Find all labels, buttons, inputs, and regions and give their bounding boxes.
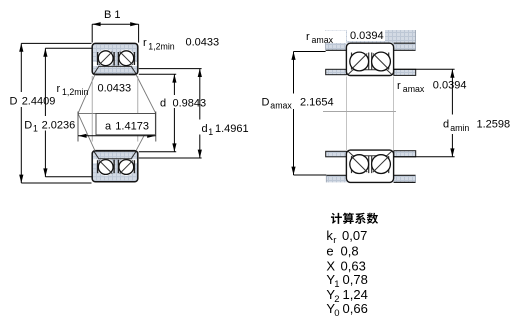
- dimension a tick left: [77, 112, 79, 142]
- bore edge extension right: [393, 77, 395, 151]
- half outline: [92, 43, 138, 74]
- ball1 contact diagonal: [99, 52, 112, 65]
- svg-text:d: d: [443, 119, 449, 131]
- svg-text:r: r: [57, 83, 61, 95]
- svg-text:0.0394: 0.0394: [433, 80, 467, 92]
- table title: [331, 213, 378, 224]
- dimension damin line: [451, 69, 453, 114]
- shaft shoulder top-right: [394, 69, 416, 75]
- ball row2: [119, 51, 134, 66]
- bottom shoulder edge right: [394, 174, 416, 176]
- bearing body white: [346, 43, 393, 75]
- ball row2: [372, 52, 391, 71]
- right face extension: [137, 76, 139, 142]
- dimension D1 line: [44, 48, 46, 116]
- housing left edge: [325, 30, 327, 50]
- svg-text:amax: amax: [403, 84, 425, 94]
- cage bar mid-right: [371, 53, 373, 71]
- svg-text:0.0433: 0.0433: [98, 82, 132, 94]
- svg-text:1.4961: 1.4961: [215, 123, 249, 135]
- contact cone edge lower-right: [136, 113, 156, 150]
- ball row1: [350, 52, 369, 71]
- svg-text:r: r: [306, 31, 310, 43]
- dimension d1 line: [199, 69, 201, 120]
- cage bar left: [351, 53, 353, 70]
- label r amax 0.0394 (top): [300, 31, 346, 44]
- ball2 diagonal: [373, 54, 389, 70]
- svg-text:1,2min: 1,2min: [62, 87, 89, 97]
- shaft shoulder bottom-left: [326, 151, 347, 157]
- cage bar mid-right: [117, 52, 119, 66]
- svg-text:r: r: [143, 37, 147, 49]
- svg-text:B 1: B 1: [104, 9, 121, 21]
- svg-text:0,78: 0,78: [343, 272, 368, 287]
- dimension D extension top: [21, 42, 91, 44]
- housing bottom block: [326, 175, 415, 182]
- ball2 contact diagonal: [120, 52, 133, 65]
- bearing bottom half (mirror): [92, 151, 138, 182]
- centerline: [323, 111, 396, 113]
- svg-text:D: D: [262, 97, 270, 109]
- dimension D1 extension bottom: [45, 176, 91, 178]
- housing shoulder edge left: [326, 49, 347, 51]
- dimension damin extension bottom: [394, 156, 455, 158]
- dimension d line: [173, 74, 175, 95]
- shaft shoulder bottom-right: [394, 151, 416, 157]
- svg-text:2.0236: 2.0236: [42, 119, 76, 131]
- dimension B extension right: [138, 24, 140, 42]
- svg-text:1,24: 1,24: [343, 287, 368, 302]
- shaft shoulder top-left: [326, 69, 347, 74]
- label box a 1.4173: [96, 114, 155, 135]
- dimension d extension top: [139, 73, 176, 75]
- housing right edge: [415, 30, 417, 50]
- ball row1: [98, 51, 113, 66]
- svg-text:0,66: 0,66: [343, 301, 368, 316]
- right bearing bottom half: [346, 150, 393, 182]
- dimension Damax line: [293, 52, 295, 94]
- svg-text:2: 2: [334, 294, 339, 305]
- svg-text:e: e: [326, 244, 333, 259]
- dimension d extension bottom: [139, 151, 176, 153]
- dimension Damax extension top: [294, 51, 326, 53]
- inner ring trapezoid: [94, 66, 136, 74]
- svg-text:0,8: 0,8: [341, 244, 359, 259]
- svg-text:r: r: [397, 80, 401, 92]
- ball1 diagonal: [351, 54, 367, 70]
- svg-text:amin: amin: [450, 123, 469, 133]
- svg-text:0.0433: 0.0433: [186, 37, 220, 49]
- dimension B line: [92, 23, 138, 25]
- dimension D line: [20, 43, 22, 92]
- housing bore line right: [394, 42, 416, 44]
- dimension Damax extension bottom: [294, 174, 327, 176]
- svg-text:1: 1: [208, 127, 213, 137]
- svg-text:1.2598: 1.2598: [477, 119, 511, 131]
- cage bar mid-left: [368, 53, 370, 71]
- housing shoulder edge right: [394, 49, 416, 51]
- dimension d1 extension top: [139, 68, 202, 70]
- contact cone edge lower-left: [78, 113, 95, 150]
- right bearing top half: [346, 43, 393, 75]
- cage bar mid-left: [113, 52, 115, 66]
- svg-text:0.9843: 0.9843: [173, 98, 207, 110]
- dimension D1 extension top: [45, 47, 91, 49]
- svg-text:d: d: [202, 123, 208, 135]
- svg-text:amax: amax: [312, 35, 334, 45]
- bottom bore line right: [394, 181, 416, 183]
- svg-text:0.0394: 0.0394: [350, 30, 384, 42]
- svg-text:1,2min: 1,2min: [148, 41, 175, 51]
- dimension D extension bottom: [21, 182, 91, 184]
- dimension d1 extension bottom: [139, 157, 202, 159]
- cage bar right: [133, 52, 135, 65]
- outer ring land between balls: [111, 49, 120, 55]
- bearing top half group: [92, 43, 138, 74]
- dimension a tick right: [155, 112, 157, 142]
- outer+inner ring blue body: [92, 43, 138, 74]
- bottom block right edge: [415, 175, 417, 182]
- axis line between apexes: [78, 112, 156, 114]
- left face extension: [91, 76, 93, 142]
- white gap above inner ring: [93, 62, 137, 66]
- svg-text:1.4173: 1.4173: [115, 121, 149, 133]
- bearing notch in housing: [346, 43, 393, 50]
- svg-text:D: D: [10, 96, 18, 108]
- housing top block: [326, 30, 416, 50]
- svg-text:1: 1: [33, 123, 38, 133]
- svg-text:D: D: [24, 119, 32, 131]
- dimension B extension left: [91, 24, 93, 42]
- inner ring trapezoid outline: [348, 70, 392, 75]
- cage bar right: [388, 53, 390, 70]
- svg-text:r: r: [333, 235, 336, 246]
- bottom shoulder edge left: [326, 174, 346, 176]
- contact cone edge upper-left: [78, 75, 95, 114]
- svg-text:amax: amax: [270, 101, 292, 111]
- svg-text:0: 0: [334, 308, 339, 319]
- svg-text:2.4409: 2.4409: [22, 96, 56, 108]
- bottom block left edge: [325, 175, 327, 182]
- svg-text:d: d: [160, 98, 166, 110]
- svg-text:1: 1: [334, 279, 339, 290]
- bore edge extension left: [345, 77, 347, 151]
- svg-text:a: a: [105, 121, 112, 133]
- svg-text:2.1654: 2.1654: [300, 97, 334, 109]
- svg-text:0,07: 0,07: [342, 228, 367, 243]
- half outline: [346, 43, 393, 75]
- raceway clearance white pockets: [97, 50, 114, 67]
- dimension damin extension top: [394, 68, 455, 70]
- cage bar left: [97, 52, 99, 65]
- dimension a line: [78, 135, 156, 137]
- contact cone edge upper-right: [136, 75, 156, 114]
